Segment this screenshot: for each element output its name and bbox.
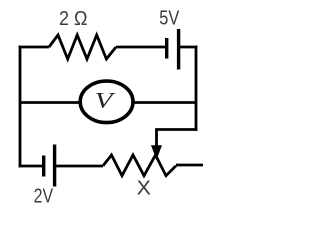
wire: resistor to battery 5V xyxy=(116,46,165,49)
rheostat X zigzag xyxy=(103,155,176,176)
resistor 2 ohm xyxy=(49,35,116,59)
voltmeter V circle xyxy=(80,81,133,123)
wire: step from right branch to wiper xyxy=(157,130,198,148)
battery 5V long plate xyxy=(177,29,180,70)
svg-text:2 Ω: 2 Ω xyxy=(59,8,88,30)
wire: bottom-left horizontal to battery 2V xyxy=(19,165,42,168)
wire: left vertical branch xyxy=(19,46,22,168)
wire: rheostat to open end xyxy=(176,164,203,167)
wire: battery 2V to rheostat xyxy=(56,165,103,168)
wiper arrow of rheostat xyxy=(151,145,162,160)
svg-text:5V: 5V xyxy=(159,6,179,29)
battery 2V long plate xyxy=(53,145,56,187)
wire: middle branch left (to voltmeter) xyxy=(20,101,80,104)
wire: battery 5V to right corner xyxy=(180,46,197,49)
svg-text:2V: 2V xyxy=(34,186,54,208)
wire: middle branch right (voltmeter to right branch) xyxy=(133,101,196,104)
svg-text:X: X xyxy=(137,177,152,200)
wire: top-left horizontal to resistor xyxy=(19,46,49,49)
wire: right vertical branch xyxy=(195,46,198,131)
battery 2V short plate xyxy=(42,156,45,177)
battery 5V short plate xyxy=(165,38,168,59)
